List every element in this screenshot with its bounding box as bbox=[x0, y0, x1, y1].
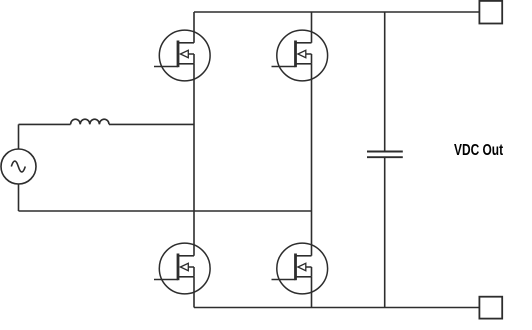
wire: inductor to left leg node bbox=[109, 123, 194, 125]
wire: left leg mid section bbox=[193, 64, 195, 256]
wire: right leg mid section bbox=[311, 64, 313, 256]
MOSFET Q2 (top-right) bbox=[272, 30, 328, 81]
MOSFET Q1 (top-left) bbox=[154, 30, 210, 81]
wire: left leg drain stub (top) bbox=[193, 12, 195, 43]
wire: top DC rail bbox=[194, 11, 479, 13]
terminal square: VDC Out - bbox=[479, 297, 502, 319]
wire: AC top to inductor bbox=[19, 123, 71, 125]
inductor L1 bbox=[71, 119, 109, 124]
wire: AC source top stub bbox=[18, 124, 20, 149]
wire: capacitor bottom lead bbox=[384, 158, 386, 308]
wire: bottom DC rail bbox=[194, 307, 479, 309]
label: VDC Out bbox=[454, 142, 503, 160]
MOSFET Q4 (bottom-right) bbox=[272, 243, 328, 294]
wire: left leg source to bottom rail bbox=[193, 277, 195, 308]
wire: capacitor top lead bbox=[384, 12, 386, 151]
MOSFET Q3 (bottom-left) bbox=[154, 243, 210, 294]
capacitor C1 bbox=[367, 152, 403, 158]
wire: AC source bottom stub bbox=[18, 184, 20, 211]
wire: right leg source to bottom rail bbox=[311, 277, 313, 308]
wire: right leg drain stub (top) bbox=[311, 12, 313, 43]
AC source V1 bbox=[1, 149, 36, 184]
wire: AC return to right leg node bbox=[19, 210, 312, 212]
terminal square: VDC Out + bbox=[479, 1, 502, 24]
